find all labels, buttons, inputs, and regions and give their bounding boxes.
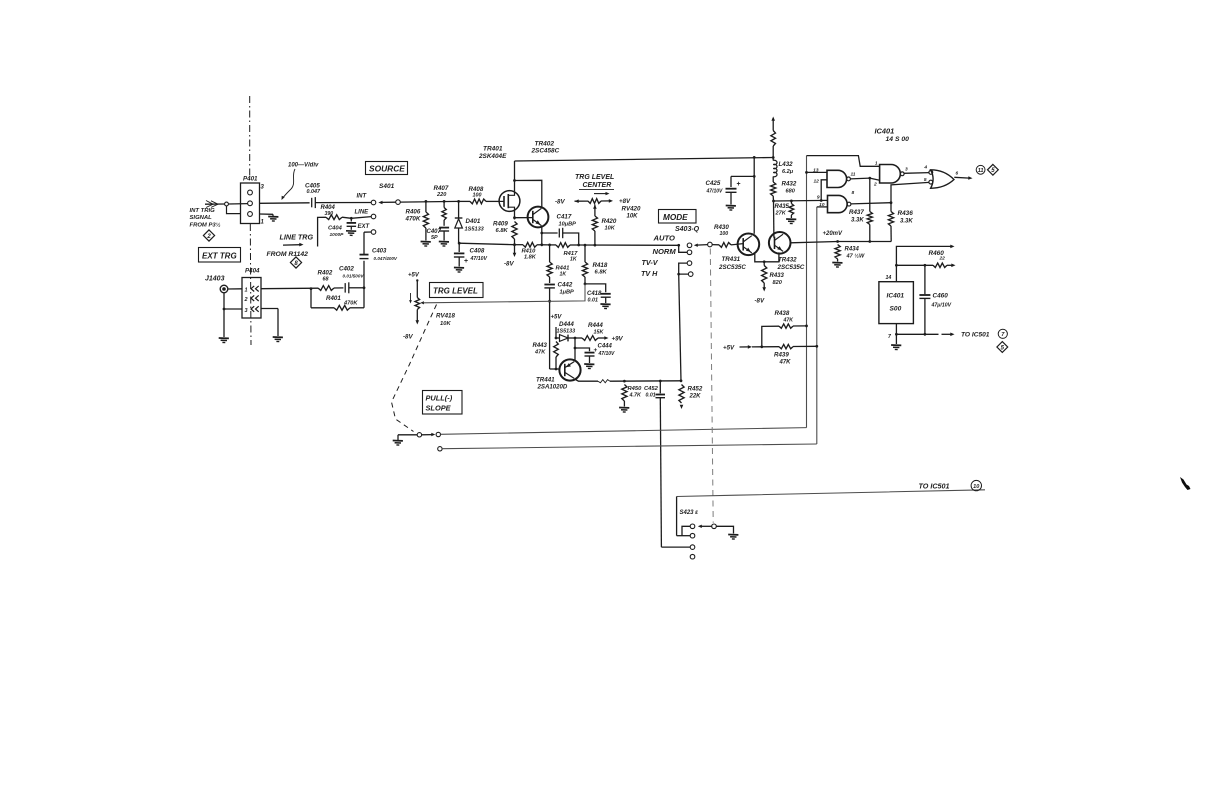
label TR431 2SC535C xyxy=(718,256,746,271)
resistor R410 series xyxy=(515,242,542,247)
IC401 spare gate box xyxy=(879,282,914,324)
label box EXT TRG xyxy=(199,248,241,263)
switch S401 INT contact xyxy=(357,194,376,205)
switch S423 wiper xyxy=(698,524,734,534)
mechanical dashed link RV418 to slope switch xyxy=(392,305,437,432)
svg-text:10: 10 xyxy=(819,202,825,208)
svg-text:220: 220 xyxy=(436,192,447,198)
svg-text:0.01: 0.01 xyxy=(646,393,656,399)
label +20mV xyxy=(823,231,844,237)
label C405 0.047 xyxy=(305,183,321,196)
resistor R452 xyxy=(679,385,684,410)
svg-text:R450: R450 xyxy=(628,386,643,392)
label pin 2 xyxy=(873,182,877,188)
wire BNC shield to ground xyxy=(223,293,242,337)
svg-text:TR441: TR441 xyxy=(536,377,555,384)
svg-text:12: 12 xyxy=(813,179,819,185)
svg-text:R406: R406 xyxy=(406,209,421,216)
svg-text:P401: P401 xyxy=(243,176,258,183)
resistor R417 series xyxy=(550,243,579,248)
label pin 11 xyxy=(851,172,856,178)
svg-text:0.047: 0.047 xyxy=(307,189,321,195)
svg-text:4.7K: 4.7K xyxy=(629,393,642,399)
BNC jack J1403 xyxy=(220,285,242,293)
label C417 10uBP xyxy=(557,214,577,228)
svg-text:9: 9 xyxy=(817,195,820,201)
svg-text:TRG LEVEL: TRG LEVEL xyxy=(575,174,614,181)
resistor R436 xyxy=(888,203,893,242)
svg-text:68: 68 xyxy=(323,277,329,283)
main signal line segment D401 to R410 xyxy=(459,243,514,245)
net circled 10 xyxy=(971,480,981,490)
svg-text:10K: 10K xyxy=(440,321,451,327)
wire pin7 to ground xyxy=(895,324,898,344)
label C407 5P xyxy=(427,229,442,241)
svg-text:SLOPE: SLOPE xyxy=(426,404,452,413)
svg-text:2: 2 xyxy=(873,182,877,188)
svg-text:47K: 47K xyxy=(534,350,546,356)
wire gate1 output xyxy=(851,177,872,180)
label NORM xyxy=(653,247,677,256)
svg-text:C417: C417 xyxy=(557,214,572,221)
svg-text:R401: R401 xyxy=(326,295,341,302)
gate U1A NAND xyxy=(827,170,850,187)
switch S423 bracket xyxy=(677,497,691,536)
transistor TR441 PNP xyxy=(559,359,580,380)
svg-text:TO IC501: TO IC501 xyxy=(961,332,990,339)
label +5V above D444 xyxy=(551,315,563,321)
label TR432 2SC535C xyxy=(777,257,805,272)
label R460 22 xyxy=(929,250,946,262)
svg-text:1.8K: 1.8K xyxy=(524,255,537,261)
svg-text:TV H: TV H xyxy=(641,269,658,278)
resistor R430 xyxy=(712,243,743,248)
svg-text:47/10V: 47/10V xyxy=(598,351,616,357)
svg-text:+: + xyxy=(737,181,741,188)
svg-text:L432: L432 xyxy=(779,161,794,168)
label pin 4 xyxy=(923,165,927,171)
label R437 3.3K xyxy=(849,209,864,224)
wire RV418 wiper to R418 C418 node xyxy=(423,284,585,303)
label pin 14 xyxy=(886,275,892,281)
wire TR401 source to TR402 base node xyxy=(513,211,533,220)
label pin 1 xyxy=(875,161,878,167)
svg-text:LINE: LINE xyxy=(355,210,370,216)
svg-text:390: 390 xyxy=(325,211,334,217)
ground under C444 xyxy=(584,364,594,369)
svg-text:5P: 5P xyxy=(431,235,438,241)
wire pin10 xyxy=(817,206,828,208)
svg-text:TO IC501: TO IC501 xyxy=(919,482,950,491)
svg-text:IC401: IC401 xyxy=(875,127,895,136)
resistor R407 vertical xyxy=(442,201,446,225)
svg-text:INT: INT xyxy=(357,194,368,200)
svg-text:C402: C402 xyxy=(339,266,354,273)
svg-text:R409: R409 xyxy=(493,221,508,228)
label R410 1.8K xyxy=(522,249,537,261)
svg-text:R443: R443 xyxy=(533,343,548,349)
svg-text:J1403: J1403 xyxy=(205,276,225,283)
label TRG LEVEL CENTER xyxy=(575,174,614,195)
svg-text:R435: R435 xyxy=(775,204,790,210)
wire TR432 collector line xyxy=(791,242,838,243)
svg-text:RV420: RV420 xyxy=(622,206,641,213)
resistor R409 xyxy=(512,222,517,245)
svg-text:-8V: -8V xyxy=(755,298,766,305)
wire P404 pin3 to ground xyxy=(261,309,278,337)
node R402-C403 xyxy=(363,286,366,289)
svg-text:3.3K: 3.3K xyxy=(900,219,913,225)
label +8V right of RV420 xyxy=(619,198,631,205)
label pin 8 xyxy=(852,190,855,196)
svg-text:10: 10 xyxy=(973,484,980,490)
svg-text:TR432: TR432 xyxy=(778,257,797,264)
switch S403 TV contacts xyxy=(677,261,693,277)
svg-text:1μBP: 1μBP xyxy=(560,290,575,296)
ground at slope switch xyxy=(393,435,403,445)
wire P404 pin1 to R402 xyxy=(261,287,318,290)
svg-text:C425: C425 xyxy=(706,180,721,187)
label pin 9 xyxy=(817,195,820,201)
wire TR402 emitter xyxy=(540,226,543,247)
wire C452 to S423 xyxy=(660,398,661,547)
vertical feedback wire to gate1 pin13 xyxy=(806,156,808,428)
switch S423 contact 2 xyxy=(690,533,695,538)
long wire slope NO to gate2 pin10 xyxy=(442,444,817,449)
capacitor C403 xyxy=(360,232,372,288)
capacitor C404 xyxy=(347,218,357,230)
feed arrow above L432 xyxy=(771,117,775,131)
wire supply line upper xyxy=(896,245,954,266)
label -8V left of RV420 xyxy=(555,199,566,206)
svg-text:-8V: -8V xyxy=(403,334,414,341)
svg-text:6.8K: 6.8K xyxy=(496,228,509,234)
svg-text:3.3K: 3.3K xyxy=(851,218,864,224)
label box MODE xyxy=(659,210,697,224)
transistor TR431 xyxy=(738,234,760,256)
svg-text:FROM R1142: FROM R1142 xyxy=(267,251,309,258)
node R409 main line xyxy=(513,243,516,246)
svg-text:470K: 470K xyxy=(343,301,358,307)
ground under C404 xyxy=(346,231,356,236)
label FROM R1142 xyxy=(267,251,309,258)
svg-text:TR401: TR401 xyxy=(483,146,503,153)
transistor TR432 xyxy=(769,232,791,254)
wire pin12 xyxy=(821,180,827,201)
svg-text:4: 4 xyxy=(923,165,927,171)
label R402 68 xyxy=(318,270,333,283)
label R407 220 xyxy=(434,185,449,198)
svg-text:C452: C452 xyxy=(644,386,659,392)
svg-text:2SC535C: 2SC535C xyxy=(777,264,805,271)
capacitor C407 xyxy=(439,228,449,241)
svg-text:5: 5 xyxy=(924,177,927,183)
wire gate4 output arrow xyxy=(954,176,972,180)
resistor R450 xyxy=(622,385,627,407)
svg-text:PULL(-): PULL(-) xyxy=(426,394,453,403)
label R438 47K xyxy=(775,310,795,324)
resistor R437 xyxy=(867,178,872,241)
label pin 12 xyxy=(813,179,819,185)
resistor R402 xyxy=(318,286,334,291)
svg-text:10K: 10K xyxy=(627,214,639,220)
label pin 7 xyxy=(888,334,892,340)
switch S401 EXT contact xyxy=(358,224,376,234)
svg-text:22: 22 xyxy=(939,256,946,262)
svg-text:S423 ε: S423 ε xyxy=(680,510,699,516)
capacitor C452 xyxy=(656,381,666,398)
svg-text:11: 11 xyxy=(851,172,856,178)
svg-text:R432: R432 xyxy=(782,181,797,188)
svg-text:+20mV: +20mV xyxy=(823,231,844,237)
wire TV contacts to R452 node xyxy=(679,274,681,381)
svg-text:27K: 27K xyxy=(775,211,787,217)
svg-text:2SA1020D: 2SA1020D xyxy=(537,384,568,391)
svg-text:D444: D444 xyxy=(559,321,574,328)
label +9V xyxy=(612,336,624,343)
node pin13 xyxy=(805,171,808,174)
resistor R408 xyxy=(470,199,499,204)
label +5V above RV418 xyxy=(408,273,420,279)
label IC401 S00 in box xyxy=(887,293,905,313)
svg-text:LINE TRG: LINE TRG xyxy=(280,233,314,242)
ground under R406 xyxy=(421,242,431,247)
svg-text:SOURCE: SOURCE xyxy=(369,164,405,174)
gate U1B NAND xyxy=(828,195,851,212)
svg-text:+8V: +8V xyxy=(619,198,631,205)
ground under IC401 pin7 xyxy=(891,345,901,350)
svg-text:CENTER: CENTER xyxy=(583,182,612,189)
transistor TR401 JFET xyxy=(499,191,520,212)
svg-text:1000P: 1000P xyxy=(330,232,345,238)
svg-text:TR402: TR402 xyxy=(535,141,555,148)
svg-text:S403-Q: S403-Q xyxy=(675,226,700,233)
svg-text:EXT: EXT xyxy=(358,224,371,230)
capacitor C402 xyxy=(334,282,364,293)
svg-text:C404: C404 xyxy=(328,226,343,232)
note 100mV/div with leader arrow xyxy=(282,163,320,201)
svg-text:R402: R402 xyxy=(318,270,333,277)
wire C442 to TR441 base xyxy=(548,288,551,369)
svg-text:14: 14 xyxy=(886,275,892,281)
svg-text:C403: C403 xyxy=(372,249,387,255)
svg-text:0.047/400V: 0.047/400V xyxy=(374,256,398,261)
ground at S423 wiper xyxy=(728,535,738,540)
label C403 0.047/400V xyxy=(372,249,398,262)
label D444 1S5133 xyxy=(557,321,576,335)
wire TR441 emitter xyxy=(574,348,576,360)
svg-text:TV-V: TV-V xyxy=(642,258,659,267)
svg-text:+5V: +5V xyxy=(551,315,563,321)
label R441 1K xyxy=(556,266,570,278)
label IC401 14S00 xyxy=(875,127,910,144)
svg-text:-8V: -8V xyxy=(504,261,515,268)
svg-text:C418: C418 xyxy=(587,291,602,297)
svg-text:IC401: IC401 xyxy=(887,293,905,300)
svg-text:680: 680 xyxy=(786,189,796,195)
svg-text:100: 100 xyxy=(720,231,729,237)
svg-text:S401: S401 xyxy=(379,183,395,190)
label R420 10K xyxy=(602,218,617,232)
svg-text:TRG LEVEL: TRG LEVEL xyxy=(433,287,478,296)
gate U1D NAND negative-OR xyxy=(929,170,954,189)
label C404 1000P xyxy=(328,226,344,238)
svg-text:47 ½W: 47 ½W xyxy=(846,253,865,260)
label -8V at R409 xyxy=(504,261,515,268)
svg-text:2: 2 xyxy=(244,297,248,303)
dash-dot shield line bottom xyxy=(249,224,252,345)
svg-text:R444: R444 xyxy=(588,322,603,329)
label R417 1K xyxy=(564,251,579,263)
resistor R435 xyxy=(789,201,794,218)
svg-text:47/10V: 47/10V xyxy=(470,256,488,262)
label TR441 2SA1020D xyxy=(536,377,568,391)
svg-text:C442: C442 xyxy=(558,282,573,289)
ground under R450 xyxy=(619,408,629,413)
label R450 4.7K xyxy=(628,386,643,399)
wire TR441 base xyxy=(550,368,560,370)
wire TR402 collector xyxy=(515,180,542,206)
svg-text:SIGNAL: SIGNAL xyxy=(190,215,213,221)
slope switch contacts xyxy=(398,432,442,451)
wire gate2 output xyxy=(851,201,892,204)
svg-text:R420: R420 xyxy=(602,218,617,225)
svg-text:3: 3 xyxy=(905,167,908,173)
arrow FROM R1142 xyxy=(283,243,304,247)
transistor TR402 xyxy=(528,207,549,228)
capacitor C444 xyxy=(574,338,598,363)
label INT TRIG SIGNAL FROM P3 1/2 xyxy=(190,208,221,229)
resistor R441 xyxy=(547,245,552,283)
svg-text:+5V: +5V xyxy=(723,345,735,352)
resistor R444 xyxy=(575,336,609,341)
label -8V under RV418 xyxy=(403,334,414,341)
svg-text:R434: R434 xyxy=(845,247,860,253)
resistor R443 xyxy=(554,342,559,371)
wiper RV420 to R420 xyxy=(593,205,597,217)
label LINE TRG xyxy=(280,233,314,242)
label C452 0.01 xyxy=(644,386,659,399)
svg-text:P404: P404 xyxy=(245,268,260,275)
label box TRG LEVEL xyxy=(430,283,484,298)
svg-text:1: 1 xyxy=(875,161,878,167)
potentiometer RV418 xyxy=(409,279,424,324)
long wire to IC501 pin10 xyxy=(677,490,985,497)
svg-text:1: 1 xyxy=(245,288,248,294)
label S423-E xyxy=(680,510,699,516)
label C444 47/10V xyxy=(598,344,616,358)
connector P404 xyxy=(242,268,261,319)
svg-text:C444: C444 xyxy=(598,344,613,350)
svg-text:820: 820 xyxy=(773,280,783,286)
svg-text:100—V/div: 100—V/div xyxy=(288,163,319,169)
sheet reference diamond 8 xyxy=(290,257,301,268)
label C442 1uBP xyxy=(558,282,575,296)
ground under R435 xyxy=(786,219,796,224)
label D401 1S5133 xyxy=(465,218,485,233)
label R418 6.8K xyxy=(593,262,608,276)
resistor R439 xyxy=(779,344,818,348)
svg-text:R439: R439 xyxy=(774,352,789,359)
dash-dot shield line top xyxy=(249,96,251,182)
svg-text:R430: R430 xyxy=(714,224,729,231)
label pin 3 xyxy=(905,167,908,173)
svg-text:S00: S00 xyxy=(890,306,902,313)
label RV420 10K xyxy=(622,206,641,220)
svg-text:47K: 47K xyxy=(779,360,792,366)
wire pin13 xyxy=(807,171,828,173)
label TR401 2SK404E xyxy=(478,146,507,161)
svg-text:6.2μ: 6.2μ xyxy=(782,169,794,175)
switch S403 wiper xyxy=(694,242,712,247)
label +5V feed xyxy=(723,345,735,352)
wire TR401 drain to top rail xyxy=(513,161,516,191)
label box SOURCE xyxy=(366,162,408,175)
capacitor C460 xyxy=(919,265,930,334)
node R432 TR432 base xyxy=(772,200,775,203)
svg-text:14 S 00: 14 S 00 xyxy=(886,136,910,143)
capacitor C418 xyxy=(585,284,611,303)
svg-text:0.01: 0.01 xyxy=(588,298,599,304)
label R430 100 xyxy=(714,224,729,237)
svg-text:10μBP: 10μBP xyxy=(559,222,577,228)
svg-text:R452: R452 xyxy=(688,386,703,393)
svg-text:C460: C460 xyxy=(933,293,949,300)
svg-text:10K: 10K xyxy=(605,226,616,232)
svg-text:100: 100 xyxy=(473,193,482,199)
wire P401 pin3 to ground xyxy=(260,214,274,216)
label S401 xyxy=(379,183,395,190)
output line of TR441 xyxy=(610,379,682,382)
capacitor C405 xyxy=(312,197,372,208)
wire +5V to D444 node xyxy=(555,327,558,339)
svg-text:2SC458C: 2SC458C xyxy=(531,148,560,155)
svg-text:47/10V: 47/10V xyxy=(706,189,724,195)
label TV-V xyxy=(642,258,659,267)
svg-text:8: 8 xyxy=(852,190,855,196)
diode D401 xyxy=(455,201,463,243)
label R435 27K xyxy=(775,204,790,217)
wire TR441 collector to output line xyxy=(576,380,599,382)
wire emitters TR431 TR432 xyxy=(755,252,779,263)
svg-text:15K: 15K xyxy=(594,330,605,336)
potentiometer RV420 xyxy=(575,199,614,204)
mechanical dashed line S403 to S423 xyxy=(710,249,713,523)
svg-text:47K: 47K xyxy=(783,318,795,324)
parasitic choke squiggle xyxy=(598,380,610,383)
ground under J1403 xyxy=(219,338,229,343)
svg-text:MODE: MODE xyxy=(663,213,688,222)
svg-text:-8V: -8V xyxy=(555,199,566,206)
switch S423 contact 1 xyxy=(682,524,695,536)
svg-text:470K: 470K xyxy=(405,216,421,223)
label TO IC501 pin7 xyxy=(961,332,990,339)
svg-text:1S5133: 1S5133 xyxy=(557,329,576,335)
wire P401 to C405 xyxy=(260,202,310,205)
wire S401 common to R408 xyxy=(400,200,470,203)
label R432 680 xyxy=(782,181,797,195)
resistor R438 xyxy=(760,324,808,348)
resistor R434 xyxy=(835,245,840,262)
capacitor C417 xyxy=(542,228,580,247)
resistor R401 xyxy=(311,288,364,310)
ground under C408 xyxy=(454,268,464,273)
wire LINE-trigger path xyxy=(318,217,372,247)
svg-text:RV418: RV418 xyxy=(436,313,455,320)
svg-text:R418: R418 xyxy=(593,262,608,269)
label -8V under R433 xyxy=(755,298,766,305)
svg-text:NORM: NORM xyxy=(653,247,677,256)
